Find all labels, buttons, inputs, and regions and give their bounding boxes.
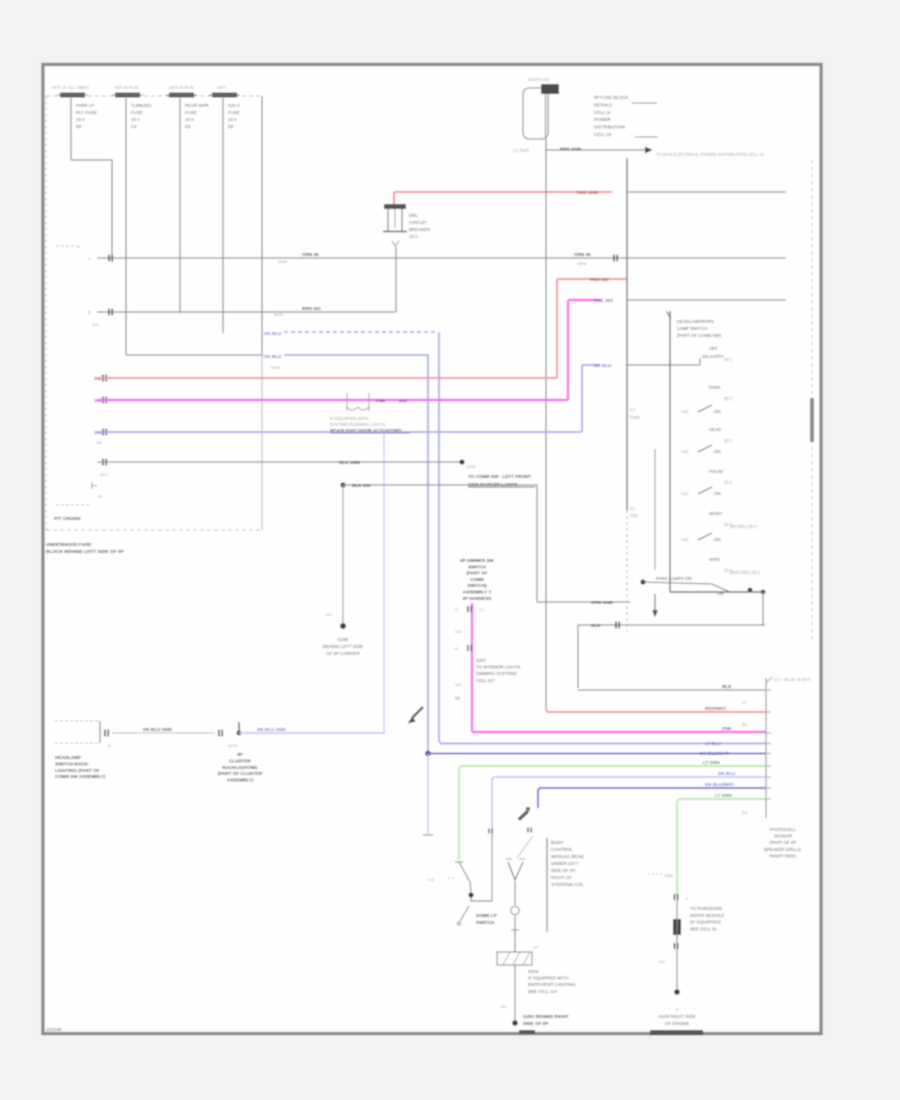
svg-text:(PART OF: (PART OF bbox=[467, 571, 488, 576]
svg-text:5039: 5039 bbox=[274, 312, 284, 317]
gray dash label left bbox=[56, 245, 74, 247]
wire breaker to y312 bbox=[395, 247, 397, 312]
blue vertical x428 lower bbox=[427, 754, 429, 835]
svg-text:COMB SW ASSEMBLY): COMB SW ASSEMBLY) bbox=[55, 774, 106, 779]
connector C1 right edge bbox=[765, 678, 767, 818]
svg-text:PNK: PNK bbox=[376, 399, 386, 404]
svg-text:SPEAKER GRILLE,: SPEAKER GRILLE, bbox=[764, 847, 803, 852]
magenta vertical x568 bbox=[567, 300, 569, 400]
svg-text:D2: D2 bbox=[185, 124, 191, 129]
vertical x655 bbox=[654, 449, 656, 570]
svg-text:SENSOR: SENSOR bbox=[774, 834, 793, 839]
svg-text:BLK: BLK bbox=[591, 623, 601, 628]
magenta wire y732 bbox=[472, 731, 766, 733]
svg-text:PWR: PWR bbox=[630, 415, 640, 420]
svg-text:DISTRIBUTION: DISTRIBUTION bbox=[594, 125, 625, 130]
svg-text:SIDE OF I/P,: SIDE OF I/P, bbox=[551, 868, 576, 873]
svg-text:BLOCK BEHIND LEFT SIDE OF I/P: BLOCK BEHIND LEFT SIDE OF I/P bbox=[46, 549, 125, 555]
svg-text:I/P DIMMER SW: I/P DIMMER SW bbox=[460, 558, 494, 563]
svg-text:BODY: BODY bbox=[551, 840, 564, 845]
svg-text:RED/WHT: RED/WHT bbox=[705, 706, 727, 711]
svg-text:G200: G200 bbox=[338, 637, 349, 642]
svg-text:S208: S208 bbox=[228, 743, 238, 748]
blue wire y365 bbox=[582, 364, 600, 366]
svg-text:SW: SW bbox=[92, 322, 99, 327]
svg-text:C4: C4 bbox=[131, 124, 137, 129]
svg-text:C1 = BLUE 48 WAY: C1 = BLUE 48 WAY bbox=[774, 677, 811, 682]
lavender vertical x384 bbox=[383, 433, 385, 732]
svg-text:C1: C1 bbox=[630, 506, 636, 511]
svg-text:TO RAINSENSE: TO RAINSENSE bbox=[690, 906, 723, 911]
wire fuse down long vertical x547 bbox=[545, 139, 547, 710]
svg-text:WIPE: WIPE bbox=[709, 557, 720, 562]
wire x537 down and y602 bbox=[536, 485, 538, 602]
svg-text:5040: 5040 bbox=[278, 259, 288, 264]
svg-text:B2: B2 bbox=[742, 722, 748, 727]
svg-text:5039: 5039 bbox=[271, 365, 281, 370]
connector line x627 bbox=[626, 158, 628, 510]
svg-text:10 A: 10 A bbox=[185, 117, 194, 122]
svg-text:RIGHT SIDE): RIGHT SIDE) bbox=[770, 853, 797, 858]
ground wire x677 bbox=[676, 900, 678, 990]
svg-text:C1 PWR: C1 PWR bbox=[513, 148, 529, 153]
dome switch blade bbox=[455, 861, 463, 863]
svg-text:C2: C2 bbox=[630, 407, 636, 412]
svg-text:A12: A12 bbox=[681, 409, 689, 414]
svg-text:BLK 250: BLK 250 bbox=[352, 483, 371, 488]
svg-text:RED 342: RED 342 bbox=[590, 277, 609, 282]
svg-text:TURN B/U: TURN B/U bbox=[131, 103, 152, 108]
svg-text:UNDER LEFT: UNDER LEFT bbox=[551, 861, 579, 866]
twisted pair symbol bbox=[346, 393, 348, 411]
svg-text:PULSE: PULSE bbox=[709, 469, 723, 474]
svg-text:HOT: HOT bbox=[217, 85, 226, 90]
svg-text:CONTROL: CONTROL bbox=[551, 847, 573, 852]
svg-text:OF I/P CARRIER: OF I/P CARRIER bbox=[326, 651, 360, 656]
red wire from breaker y192 bbox=[394, 191, 612, 193]
svg-text:CLUSTER: CLUSTER bbox=[229, 758, 251, 763]
gray dash label left2 bbox=[56, 504, 90, 506]
svg-text:B7: B7 bbox=[98, 494, 104, 499]
svg-text:IF EQUIPPED WITH: IF EQUIPPED WITH bbox=[528, 976, 568, 981]
wire fuse1 down bbox=[71, 98, 112, 262]
svg-text:ORN 40: ORN 40 bbox=[574, 252, 591, 257]
svg-text:RIGHT OF: RIGHT OF bbox=[551, 875, 572, 880]
svg-text:DK BLU: DK BLU bbox=[594, 363, 612, 368]
svg-text:CELL 11: CELL 11 bbox=[594, 110, 611, 115]
svg-text:DAYTIME RUNNING LIGHTS: DAYTIME RUNNING LIGHTS bbox=[330, 422, 386, 427]
svg-text:D4: D4 bbox=[742, 810, 748, 815]
svg-text:COMB: COMB bbox=[470, 577, 484, 582]
svg-text:ENTRY/EXIT LIGHTING: ENTRY/EXIT LIGHTING bbox=[528, 982, 576, 987]
bus wire y258 ORN bbox=[97, 257, 786, 259]
svg-text:(IF EQUIPPED): (IF EQUIPPED) bbox=[690, 920, 721, 925]
svg-text:5077: 5077 bbox=[100, 472, 110, 477]
blue wire y788 bbox=[538, 788, 766, 808]
magenta wire y300 bbox=[568, 299, 600, 301]
wire y192 black continuation bbox=[627, 191, 786, 193]
svg-text:D E: D E bbox=[428, 877, 435, 882]
svg-text:(B+): (B+) bbox=[724, 357, 733, 362]
violet wire y752 to connector bbox=[425, 751, 431, 757]
bus wire y312 BRN bbox=[97, 311, 396, 313]
rounded fuse box bbox=[523, 88, 548, 139]
svg-text:DK BLU/WHT: DK BLU/WHT bbox=[705, 782, 734, 787]
svg-text:CIRCUIT: CIRCUIT bbox=[409, 220, 427, 225]
svg-text:TO BCM ELECTRICAL POWER DISTRI: TO BCM ELECTRICAL POWER DISTRIBUTION CEL… bbox=[656, 152, 765, 157]
svg-text:15 A: 15 A bbox=[76, 117, 85, 122]
svg-text:ORN 1440: ORN 1440 bbox=[591, 600, 613, 605]
svg-text:HOT AT ALL TIMES: HOT AT ALL TIMES bbox=[52, 85, 89, 90]
svg-text:MODULE (BCM): MODULE (BCM) bbox=[551, 854, 584, 859]
fuse block right edge wire bbox=[261, 96, 263, 357]
switch bottom row bbox=[640, 579, 645, 584]
resistor box bbox=[497, 952, 532, 965]
wire fuse3 down bbox=[179, 98, 181, 313]
svg-text:MAXIFUSE: MAXIFUSE bbox=[528, 77, 550, 82]
svg-text:REAR WPR: REAR WPR bbox=[185, 103, 209, 108]
svg-text:STEERING COL: STEERING COL bbox=[551, 882, 584, 887]
svg-text:(PART OF COMB SW): (PART OF COMB SW) bbox=[677, 333, 722, 338]
svg-text:C1: C1 bbox=[479, 607, 485, 612]
arrow x655 down bbox=[654, 594, 656, 610]
svg-text:RED 1240: RED 1240 bbox=[577, 190, 599, 195]
svg-text:BLK: BLK bbox=[722, 684, 732, 689]
svg-text:ON: ON bbox=[714, 409, 721, 414]
lamp loop bbox=[514, 881, 516, 905]
black wire y355 bbox=[126, 354, 261, 356]
wire y733 black bbox=[112, 732, 215, 734]
svg-text:(B+): (B+) bbox=[724, 396, 733, 401]
blue dashed vertical x439 bbox=[438, 332, 440, 741]
dome wire to x492 bbox=[471, 897, 492, 901]
ambient sensor box bbox=[55, 720, 100, 722]
svg-text:(W/O DRL) (B+): (W/O DRL) (B+) bbox=[730, 570, 760, 575]
black wire y300 continuation bbox=[627, 299, 786, 301]
svg-text:S206: S206 bbox=[466, 464, 476, 469]
svg-text:PARK LAMPS ON: PARK LAMPS ON bbox=[656, 576, 692, 581]
svg-text:250: 250 bbox=[325, 612, 332, 617]
wire y625 bbox=[578, 624, 765, 626]
V arrow bbox=[508, 862, 515, 880]
bcm drop wire bbox=[518, 810, 530, 821]
headlamp switch left edge bbox=[667, 311, 671, 318]
svg-text:ASSEMBLY Y: ASSEMBLY Y bbox=[463, 590, 492, 595]
green wire y766 bbox=[459, 766, 766, 860]
svg-text:SEE CELL 114: SEE CELL 114 bbox=[528, 989, 558, 994]
svg-text:A12: A12 bbox=[681, 537, 689, 542]
svg-text:FUSE: FUSE bbox=[131, 110, 143, 115]
junction stub x239 bbox=[238, 722, 240, 733]
svg-text:DELIVERY: DELIVERY bbox=[702, 354, 724, 359]
ground wire x343 bbox=[342, 485, 344, 626]
svg-text:FUSE: FUSE bbox=[185, 110, 197, 115]
svg-text:203: 203 bbox=[455, 682, 462, 687]
svg-text:PNK: PNK bbox=[722, 726, 732, 731]
fuse block dashed box bbox=[46, 95, 262, 97]
svg-text:LT GRN: LT GRN bbox=[715, 793, 732, 798]
red wire y378 bbox=[102, 375, 104, 382]
svg-text:B6: B6 bbox=[76, 124, 82, 129]
wire x763 down bbox=[762, 592, 764, 625]
svg-text:HEAD: HEAD bbox=[709, 427, 721, 432]
svg-text:TO COMB SW - LEFT FRONT: TO COMB SW - LEFT FRONT bbox=[468, 474, 531, 479]
svg-text:POWER: POWER bbox=[594, 117, 611, 122]
svg-text:A12: A12 bbox=[681, 491, 689, 496]
svg-text:WIPER MODULE: WIPER MODULE bbox=[690, 913, 724, 918]
ticks and labels along magenta bbox=[467, 606, 469, 612]
ground wire to border bbox=[514, 965, 516, 1022]
svg-text:SEE CELL 91: SEE CELL 91 bbox=[690, 926, 717, 931]
svg-text:ASSEMBLY): ASSEMBLY) bbox=[227, 778, 254, 783]
blue wire y777 bbox=[492, 777, 766, 830]
blue vertical x582 bbox=[581, 365, 583, 432]
svg-text:SIDE OF I/P: SIDE OF I/P bbox=[523, 1021, 548, 1026]
svg-text:S209: S209 bbox=[577, 261, 587, 266]
BCM bar bbox=[546, 838, 548, 932]
svg-text:ORN 40: ORN 40 bbox=[302, 252, 319, 257]
svg-text:IF EQUIPPED WITH: IF EQUIPPED WITH bbox=[330, 416, 368, 421]
red vertical x557 bbox=[556, 279, 558, 378]
svg-text:DK BLU 1550: DK BLU 1550 bbox=[143, 727, 172, 732]
svg-text:P/T CRUISE: P/T CRUISE bbox=[54, 516, 82, 522]
svg-text:OF ENGINE: OF ENGINE bbox=[665, 1021, 689, 1026]
svg-text:DRL: DRL bbox=[409, 213, 418, 218]
page border frame bbox=[43, 65, 821, 1034]
svg-text:103348: 103348 bbox=[46, 1027, 62, 1032]
svg-text:DK BLU: DK BLU bbox=[264, 331, 282, 336]
svg-text:CELL 10: CELL 10 bbox=[594, 132, 611, 137]
svg-text:HEADLAMP: HEADLAMP bbox=[55, 755, 81, 760]
svg-text:DK BLU: DK BLU bbox=[264, 354, 282, 359]
svg-text:DIMMING SYSTEMS: DIMMING SYSTEMS bbox=[476, 671, 517, 676]
svg-text:G201 BEHIND RIGHT: G201 BEHIND RIGHT bbox=[523, 1014, 569, 1019]
green wire y799 bbox=[677, 799, 766, 896]
wire fuse2 down bbox=[125, 98, 127, 355]
svg-text:HEADLAMP/PARK: HEADLAMP/PARK bbox=[677, 319, 714, 324]
svg-text:203: 203 bbox=[455, 629, 462, 634]
svg-text:PARK: PARK bbox=[709, 385, 721, 390]
blue wire y742 to connector bbox=[439, 741, 766, 744]
svg-text:A7: A7 bbox=[533, 945, 539, 950]
page-ref arrow near x415 y715 bbox=[412, 707, 423, 718]
svg-text:RLY FUSE: RLY FUSE bbox=[76, 110, 97, 115]
svg-text:10 A: 10 A bbox=[228, 117, 237, 122]
dashed boundary x812 bbox=[811, 160, 813, 640]
dome switch lower blade bbox=[460, 906, 469, 921]
svg-text:LT BLU: LT BLU bbox=[705, 741, 722, 746]
svg-text:BEHIND LEFT SIDE: BEHIND LEFT SIDE bbox=[323, 644, 363, 649]
svg-text:SWITCH): SWITCH) bbox=[467, 583, 487, 588]
svg-text:DK BLU: DK BLU bbox=[718, 771, 736, 776]
svg-text:150: 150 bbox=[500, 1004, 507, 1009]
svg-text:IGN: IGN bbox=[630, 513, 637, 518]
svg-text:10 A: 10 A bbox=[409, 234, 418, 239]
svg-text:B: B bbox=[455, 646, 458, 651]
svg-text:I/P HARNESS: I/P HARNESS bbox=[463, 596, 492, 601]
svg-text:HOT IN RUN: HOT IN RUN bbox=[114, 85, 138, 90]
black wire y462 bbox=[102, 459, 104, 466]
svg-text:LT GRN: LT GRN bbox=[703, 760, 720, 765]
svg-text:B5: B5 bbox=[97, 440, 103, 445]
svg-text:(PART OF CLUSTER: (PART OF CLUSTER bbox=[218, 771, 263, 776]
svg-text:G203 RIGHT SIDE: G203 RIGHT SIDE bbox=[658, 1014, 695, 1019]
svg-text:(PART OF I/P: (PART OF I/P bbox=[770, 840, 797, 845]
svg-text:A7: A7 bbox=[742, 700, 748, 705]
svg-text:A: A bbox=[676, 1007, 679, 1012]
svg-text:GRN: GRN bbox=[664, 873, 673, 878]
black wire y690 to connector bbox=[578, 689, 766, 691]
svg-text:BLK 1550: BLK 1550 bbox=[339, 460, 360, 465]
svg-text:B: B bbox=[88, 310, 91, 315]
svg-text:DK BLU 1550: DK BLU 1550 bbox=[257, 727, 286, 732]
wire x578 down bbox=[577, 625, 579, 688]
svg-text:16: 16 bbox=[455, 696, 460, 701]
svg-text:S207: S207 bbox=[476, 658, 487, 663]
svg-text:I/P FUSE BLOCK: I/P FUSE BLOCK bbox=[594, 95, 628, 100]
wire fuse4 down bbox=[222, 98, 224, 333]
svg-text:HOT IN RUN: HOT IN RUN bbox=[169, 85, 193, 90]
branch wire y150 with arrow bbox=[546, 149, 645, 151]
red wire y710 bbox=[546, 710, 766, 712]
svg-text:BRN 441: BRN 441 bbox=[302, 306, 321, 311]
svg-text:(B+): (B+) bbox=[724, 480, 733, 485]
svg-text:TO INTERIOR LIGHTS: TO INTERIOR LIGHTS bbox=[476, 665, 520, 670]
svg-text:A: A bbox=[88, 256, 91, 261]
svg-text:IGN 3: IGN 3 bbox=[228, 103, 240, 108]
svg-text:203: 203 bbox=[399, 399, 407, 404]
green ground path labels bbox=[648, 873, 662, 875]
svg-text:PNK 203: PNK 203 bbox=[594, 298, 613, 303]
svg-text:RED 1040: RED 1040 bbox=[560, 147, 582, 152]
svg-text:LAMP SWITCH: LAMP SWITCH bbox=[677, 326, 707, 331]
svg-text:BACKLIGHTING: BACKLIGHTING bbox=[222, 765, 258, 770]
switch bottom wire bbox=[670, 591, 763, 593]
svg-text:S204: S204 bbox=[528, 969, 539, 974]
svg-text:A12: A12 bbox=[681, 449, 689, 454]
svg-text:SWITCH: SWITCH bbox=[476, 920, 495, 925]
svg-text:DETAILS: DETAILS bbox=[594, 102, 612, 107]
svg-text:B: B bbox=[108, 743, 111, 748]
svg-text:LIGHTING (PART OF: LIGHTING (PART OF bbox=[55, 768, 100, 773]
svg-text:DK BLU/WHT: DK BLU/WHT bbox=[700, 751, 729, 756]
svg-text:(B+): (B+) bbox=[724, 438, 733, 443]
svg-text:BREAKER: BREAKER bbox=[409, 227, 430, 232]
svg-text:(W/ DRL) (B+): (W/ DRL) (B+) bbox=[730, 524, 757, 529]
svg-text:UNDERHOOD FUSE: UNDERHOOD FUSE bbox=[46, 542, 92, 548]
svg-text:ON: ON bbox=[714, 449, 721, 454]
svg-text:150: 150 bbox=[658, 959, 665, 964]
svg-text:IG: IG bbox=[76, 244, 80, 249]
svg-text:ON: ON bbox=[714, 491, 721, 496]
svg-text:I/P: I/P bbox=[237, 752, 243, 757]
svg-text:OFF: OFF bbox=[709, 346, 718, 351]
black wire y485 bbox=[340, 482, 345, 487]
svg-text:ON: ON bbox=[714, 537, 721, 542]
svg-text:SWITCH: SWITCH bbox=[468, 564, 486, 569]
black wire y365 to switch bbox=[627, 364, 700, 366]
circuit breaker CB bbox=[384, 204, 406, 209]
blue vertical x428 bbox=[427, 355, 429, 754]
svg-text:PARK LP: PARK LP bbox=[76, 103, 94, 108]
svg-text:CELL 117: CELL 117 bbox=[476, 678, 495, 683]
magenta vertical x472 bbox=[471, 603, 473, 732]
svg-text:PHOTOCELL: PHOTOCELL bbox=[770, 827, 797, 832]
svg-text:E8: E8 bbox=[228, 124, 234, 129]
svg-text:SWITCH BACK-: SWITCH BACK- bbox=[55, 761, 90, 766]
svg-text:15 A: 15 A bbox=[131, 117, 140, 122]
svg-text:A: A bbox=[455, 607, 458, 612]
svg-text:FUSE: FUSE bbox=[228, 110, 240, 115]
red wire y279 bbox=[557, 278, 627, 280]
blue wire y432 bbox=[102, 429, 104, 436]
blue wire y733 bbox=[239, 732, 385, 734]
magenta wire y400 bbox=[102, 397, 104, 404]
svg-text:DOME LP: DOME LP bbox=[476, 913, 497, 918]
svg-text:WASH: WASH bbox=[709, 511, 722, 516]
